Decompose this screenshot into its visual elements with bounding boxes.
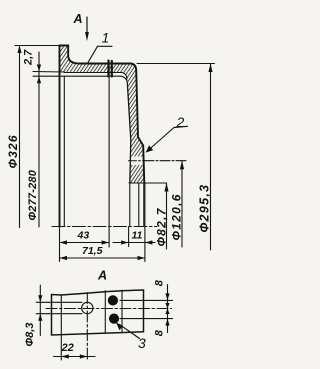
svg-text:8: 8 (154, 329, 166, 336)
view arrow A (85, 17, 89, 41)
dim line F120,6 (180, 161, 184, 247)
left wall outer line (59, 46, 61, 227)
shell wall hatch (130, 137, 143, 157)
svg-text:1: 1 (102, 30, 110, 46)
ext lines 2,7 (33, 72, 65, 77)
axis line (52, 226, 157, 228)
svg-text:8: 8 (154, 279, 166, 286)
dim line F82,7 (164, 183, 168, 249)
rivet 3 top (108, 295, 118, 305)
svg-text:Ф277-280: Ф277-280 (27, 169, 39, 220)
svg-text:43: 43 (77, 230, 90, 242)
svg-text:Ф326: Ф326 (6, 134, 20, 168)
seam weld (109, 61, 112, 77)
hole (82, 302, 93, 313)
dim line F326 (17, 46, 21, 228)
flange top line (80, 63, 132, 65)
left wall inner line (63, 76, 65, 226)
F8,3 ext lines (36, 302, 82, 313)
dim ext line top (F326) (15, 45, 60, 47)
leader 3 (116, 322, 140, 339)
svg-text:2,7: 2,7 (23, 49, 35, 66)
dim 43 (60, 240, 110, 244)
dim 11 (113, 240, 155, 244)
shell inner edge (127, 84, 130, 183)
dim line 8/8 (165, 285, 169, 333)
strip vertical line 1 (104, 291, 106, 333)
dim 22 (54, 354, 96, 358)
svg-text:A: A (97, 269, 107, 283)
dim 71,5 (60, 256, 146, 260)
svg-text:A: A (73, 12, 83, 26)
F295,3 ext line (137, 63, 215, 65)
ext lines bottom dims (60, 183, 145, 262)
leader 2 (146, 126, 188, 152)
flange bottom line (64, 73, 127, 80)
lower shell lines (130, 183, 144, 227)
dim line F8,3 (38, 285, 42, 336)
strip outline (52, 290, 144, 335)
row centre line (46, 308, 172, 310)
svg-text:71,5: 71,5 (82, 245, 103, 257)
flange hatch (80, 64, 139, 138)
left wall outer contour (60, 46, 80, 64)
dim 22 ext (60, 335, 62, 360)
svg-text:Ф8,3: Ф8,3 (24, 323, 36, 347)
strip inner left line (60, 295, 62, 334)
line y183 bottom of hatch / F82,7 ext (129, 182, 167, 184)
svg-text:22: 22 (61, 342, 74, 354)
seam edge line down (108, 64, 110, 248)
left wall hatch (60, 46, 80, 73)
hole centre line vertical (86, 293, 88, 361)
svg-text:Ф82,7: Ф82,7 (155, 207, 169, 246)
svg-text:11: 11 (132, 230, 143, 242)
centre dash in wall (129, 160, 145, 162)
sheet bottom line (60, 76, 128, 84)
svg-text:Ф120,6: Ф120,6 (170, 193, 184, 240)
dim line F295,3 (208, 64, 212, 251)
dim line F277-280 / 2,7 (37, 52, 41, 227)
ext lines 8 dims (120, 300, 173, 318)
strip vertical line 2 (121, 290, 123, 333)
F120,6 ext dash-dot (144, 160, 187, 162)
leader 1 (88, 46, 112, 62)
svg-text:3: 3 (138, 335, 146, 351)
shell outer bend (131, 64, 144, 184)
svg-text:Ф295,3: Ф295,3 (198, 184, 212, 233)
rivet 3 bottom (109, 314, 119, 324)
